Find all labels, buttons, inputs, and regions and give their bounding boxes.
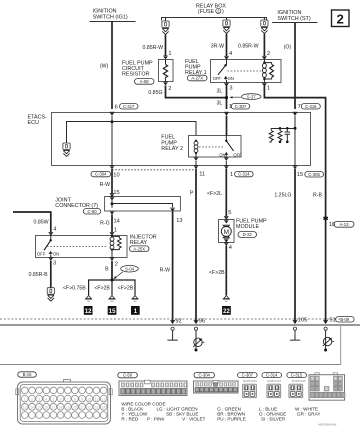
connector B-15 pins xyxy=(21,387,107,418)
pin 105 xyxy=(293,317,308,324)
connector B-15 face xyxy=(16,380,112,424)
svg-text:22: 22 xyxy=(87,406,91,410)
pin 1 C-314 ECU exit xyxy=(224,166,253,178)
svg-text:A-58: A-58 xyxy=(140,79,150,84)
mechanical link injector relay xyxy=(47,245,107,247)
label INJECTOR RELAY xyxy=(130,234,157,251)
svg-text:C-305: C-305 xyxy=(308,172,320,177)
ground terminal 105 xyxy=(290,327,300,340)
svg-text:21: 21 xyxy=(80,406,84,410)
switch relay2 contact arm xyxy=(219,136,242,158)
svg-text:B: B xyxy=(105,267,109,273)
svg-text:R-B: R-B xyxy=(313,192,322,198)
svg-text:9: 9 xyxy=(81,397,83,401)
section separator line xyxy=(0,364,341,366)
svg-text:C-315: C-315 xyxy=(291,373,303,378)
pin 51 with B-09 xyxy=(323,317,354,324)
svg-text:8: 8 xyxy=(74,397,76,401)
svg-text:2: 2 xyxy=(168,86,171,92)
svg-text:2: 2 xyxy=(31,397,33,401)
feed from C-307 to relay2 switch xyxy=(226,116,228,136)
svg-text:1: 1 xyxy=(267,85,270,91)
svg-text:12: 12 xyxy=(102,397,106,401)
svg-text:C-307: C-307 xyxy=(235,104,247,109)
svg-text:<F>2B: <F>2B xyxy=(209,270,225,276)
connector C-307 face xyxy=(243,384,257,398)
svg-text:5: 5 xyxy=(228,210,231,216)
svg-text:C-314: C-314 xyxy=(266,373,278,378)
fuse F2 (to relay1 contact) xyxy=(223,17,230,56)
svg-text:15: 15 xyxy=(297,172,303,178)
svg-text:2: 2 xyxy=(337,11,344,26)
svg-text:ON: ON xyxy=(53,251,59,256)
wire relay1 coil return R-B to ground 51 xyxy=(264,86,325,323)
svg-text:4: 4 xyxy=(45,397,47,401)
svg-text:19: 19 xyxy=(66,406,70,410)
label C-304 xyxy=(194,372,215,377)
svg-text:A-27X: A-27X xyxy=(191,76,203,81)
svg-text:15: 15 xyxy=(37,406,41,410)
svg-text:3: 3 xyxy=(53,261,56,267)
svg-text:13: 13 xyxy=(176,218,182,224)
wire ECU pin10 R-W to joint connector xyxy=(100,169,120,196)
wire ECU pin15 1.25LG to ground 105 xyxy=(274,169,295,323)
svg-text:S-37: S-37 xyxy=(247,94,257,99)
wire internal branch xyxy=(67,122,197,144)
svg-text:RELAY 2: RELAY 2 xyxy=(161,146,183,152)
capacitor filter xyxy=(285,127,291,143)
ground split bar xyxy=(89,278,135,295)
svg-text:RESISTOR: RESISTOR xyxy=(122,72,150,78)
label JOINT CONNECTOR (7) xyxy=(55,198,101,215)
svg-text:10: 10 xyxy=(113,173,119,179)
svg-text:C-314: C-314 xyxy=(238,172,250,177)
pin 13 joint connector to ground xyxy=(160,211,183,322)
pin 11 ECU exit xyxy=(194,166,205,178)
wire 3L relay1 out to junction and ECU xyxy=(217,86,229,109)
inline connector A-13 pin 18 xyxy=(323,217,354,228)
wire relay box bracket xyxy=(162,18,267,21)
wire IG1 inside ECU xyxy=(111,116,114,166)
svg-text:51: 51 xyxy=(329,317,335,323)
svg-text:<F>2L: <F>2L xyxy=(207,191,222,197)
ground 1 xyxy=(131,296,140,316)
pin 7 C-315 ECU entry xyxy=(293,104,321,116)
label C-315 xyxy=(287,373,307,383)
svg-text:92: 92 xyxy=(175,318,181,324)
svg-text:A-25X: A-25X xyxy=(133,246,145,251)
svg-text:7: 7 xyxy=(298,104,301,110)
svg-text:<F>0.75B: <F>0.75B xyxy=(63,285,86,291)
pin 4 relay1 xyxy=(224,51,232,60)
svg-text:C-50: C-50 xyxy=(123,373,133,378)
svg-text:(FUSE: (FUSE xyxy=(198,9,215,15)
svg-text:10: 10 xyxy=(87,397,91,401)
pin 6 C-317 ECU entry xyxy=(110,104,138,116)
wire ST inside ECU to filter xyxy=(294,116,297,166)
svg-text:MU801690: MU801690 xyxy=(292,379,306,383)
bolt ground 96 xyxy=(193,327,204,351)
label C-50 xyxy=(118,372,138,377)
svg-text:6: 6 xyxy=(115,104,118,110)
svg-text:2: 2 xyxy=(115,262,118,268)
svg-text:OFF: OFF xyxy=(213,76,222,81)
svg-text:<F>2B: <F>2B xyxy=(118,285,134,291)
coil relay2 xyxy=(194,140,198,158)
svg-text:15: 15 xyxy=(113,190,119,196)
switch relay1 contact arm xyxy=(213,60,234,84)
svg-text:(W): (W) xyxy=(100,64,109,70)
svg-text:HBG05M04AB: HBG05M04AB xyxy=(318,423,336,427)
pin 10 C-304 ECU exit xyxy=(91,166,120,179)
connector link dashed C-304 xyxy=(112,169,196,171)
svg-text:18: 18 xyxy=(59,406,63,410)
svg-text:C-307: C-307 xyxy=(242,373,254,378)
svg-text:3: 3 xyxy=(229,86,232,92)
frame corner right xyxy=(340,326,342,365)
junction S-37 xyxy=(229,94,261,100)
ground 12 xyxy=(84,296,93,316)
connector C-50 face xyxy=(119,380,187,395)
relay INJECTOR RELAY box xyxy=(36,236,128,258)
svg-text:1.25LG: 1.25LG xyxy=(274,193,291,199)
svg-text:105: 105 xyxy=(298,317,308,323)
svg-text:23: 23 xyxy=(95,406,99,410)
pin 96 xyxy=(194,318,206,324)
svg-text:OFF: OFF xyxy=(233,153,242,158)
svg-text:GR : GRAY: GR : GRAY xyxy=(297,412,320,417)
pin 1 relay2 contact out xyxy=(224,157,229,165)
pin 2 relay1 xyxy=(262,51,270,60)
relay FUEL PUMP RELAY 2 box xyxy=(189,136,242,158)
svg-text:P: P xyxy=(190,190,194,196)
svg-text:ON: ON xyxy=(219,153,225,158)
svg-text:B-09: B-09 xyxy=(340,317,350,322)
svg-text:MODULE: MODULE xyxy=(236,224,259,230)
pin 2 injector relay out xyxy=(105,258,118,281)
node page reference 2 xyxy=(332,10,350,27)
svg-text:0.85R-W: 0.85R-W xyxy=(238,43,259,49)
svg-text:P : PINK: P : PINK xyxy=(147,417,165,422)
wire ST feed down to ECU pin 7 xyxy=(294,23,296,109)
svg-text:ECU: ECU xyxy=(28,120,39,126)
mechanical link relay2 xyxy=(199,146,225,148)
pin 15 C-305 ECU exit xyxy=(293,166,324,179)
svg-text:4: 4 xyxy=(229,245,232,251)
svg-text:3: 3 xyxy=(38,397,40,401)
switch injector relay contact arm xyxy=(37,235,59,257)
label FUEL PUMP RELAY 2 xyxy=(161,135,183,152)
svg-text:MU801323: MU801323 xyxy=(267,379,281,383)
junction S-04 xyxy=(113,265,138,279)
motor FUEL PUMP MODULE xyxy=(219,216,235,242)
svg-text:0.85W: 0.85W xyxy=(34,219,49,225)
svg-text:ON: ON xyxy=(228,76,234,81)
wire C-314 to module F 2L xyxy=(207,169,231,217)
coil relay1 with parallel resistor xyxy=(262,60,273,84)
svg-text:PU : PURPLE: PU : PURPLE xyxy=(217,417,246,422)
svg-text:S-04: S-04 xyxy=(125,267,135,272)
svg-text:R-W: R-W xyxy=(160,267,170,273)
svg-text:): ) xyxy=(222,9,224,15)
coil injector relay with parallel resistor xyxy=(110,235,121,257)
resistor filter 2 xyxy=(278,127,282,143)
svg-text:20: 20 xyxy=(73,406,77,410)
internal filter branch xyxy=(271,129,295,131)
svg-text:C-315: C-315 xyxy=(305,104,317,109)
svg-text:(O): (O) xyxy=(284,45,292,51)
pin 1 relay1 xyxy=(262,83,270,91)
svg-text:M: M xyxy=(224,229,229,236)
svg-text:22: 22 xyxy=(223,309,230,315)
svg-text:0.85R-W: 0.85R-W xyxy=(143,45,164,51)
wire ECU pin11 P to ground 96 xyxy=(190,169,196,323)
svg-text:<F>2B: <F>2B xyxy=(94,285,110,291)
svg-text:16: 16 xyxy=(45,406,49,410)
pin 14 joint connector out xyxy=(100,211,120,233)
label B-15 xyxy=(18,372,37,377)
svg-text:5: 5 xyxy=(53,397,55,401)
node IGNITION SWITCH (ST) label xyxy=(272,10,318,22)
svg-text:13: 13 xyxy=(23,406,27,410)
svg-text:D-22: D-22 xyxy=(243,232,253,237)
connector C-315 face xyxy=(289,384,303,398)
connector C-304 face xyxy=(194,380,239,393)
pin 92 xyxy=(170,318,181,324)
off-page connector below pin 3 xyxy=(47,288,54,301)
joint connector C-50 box xyxy=(105,194,181,212)
ground 22 xyxy=(222,296,231,316)
node IGNITION SWITCH (IG1) label xyxy=(90,9,136,22)
svg-text:15: 15 xyxy=(109,309,116,315)
svg-text:SWITCH (ST): SWITCH (ST) xyxy=(277,16,310,22)
bolt ground 51 xyxy=(323,327,334,351)
svg-text:V : VIOLET: V : VIOLET xyxy=(182,417,205,422)
svg-text:11: 11 xyxy=(199,172,205,178)
svg-text:R-G: R-G xyxy=(100,221,110,227)
pin 11 relay2 coil out xyxy=(194,157,199,165)
svg-text:4: 4 xyxy=(229,51,232,57)
svg-text:SI : SILVER: SI : SILVER xyxy=(261,417,286,422)
svg-text:17: 17 xyxy=(52,406,56,410)
internal off-page symbol xyxy=(63,143,70,156)
label C-314 xyxy=(262,373,282,383)
label ETACS-ECU xyxy=(28,115,48,127)
fuse F1 (to resistor) xyxy=(162,17,169,56)
wire resistor output to junction xyxy=(166,85,227,97)
svg-text:6: 6 xyxy=(60,397,62,401)
svg-text:OFF: OFF xyxy=(37,251,46,256)
pin 3 relay1 xyxy=(224,83,232,91)
pin 1 C-307 ECU entry xyxy=(224,104,250,116)
svg-text:7: 7 xyxy=(67,397,69,401)
pin 3 injector relay out xyxy=(29,258,57,288)
svg-text:RELAY: RELAY xyxy=(130,240,148,246)
boundary dashed line xyxy=(0,318,341,320)
svg-text:C-304: C-304 xyxy=(198,373,210,378)
svg-text:3R-W: 3R-W xyxy=(211,43,224,49)
box ETACS-ECU xyxy=(52,113,311,166)
svg-text:14: 14 xyxy=(30,406,34,410)
svg-text:24: 24 xyxy=(102,406,106,410)
svg-text:R-W: R-W xyxy=(100,182,110,188)
relay FUEL PUMP RELAY 1 box xyxy=(211,60,282,83)
svg-text:MU801325: MU801325 xyxy=(243,379,257,383)
pin 4 module out xyxy=(209,243,232,296)
ground terminal 92 xyxy=(167,327,177,340)
svg-text:3L: 3L xyxy=(217,101,223,107)
svg-text:96: 96 xyxy=(199,318,205,324)
mechanical link relay1 xyxy=(228,70,262,72)
svg-text:R : RED: R : RED xyxy=(121,417,139,422)
svg-text:1: 1 xyxy=(24,397,26,401)
svg-text:B-15: B-15 xyxy=(23,372,33,377)
svg-text:2: 2 xyxy=(267,51,270,57)
label FUEL PUMP CIRCUIT RESISTOR xyxy=(122,60,154,84)
svg-text:4: 4 xyxy=(53,226,56,232)
resistor R1 FUEL PUMP CIRCUIT RESISTOR xyxy=(159,51,174,92)
svg-text:0.85G: 0.85G xyxy=(148,90,162,96)
svg-text:C-50: C-50 xyxy=(87,209,97,214)
resistor filter 1 xyxy=(269,131,273,142)
svg-text:C-304: C-304 xyxy=(95,172,107,177)
wire IG1 feed down to ECU pin 6 xyxy=(111,21,113,109)
wire color code xyxy=(121,402,320,422)
ground bus bar xyxy=(0,324,360,326)
svg-text:A-13: A-13 xyxy=(340,222,350,227)
svg-text:12: 12 xyxy=(85,309,92,315)
pin 4 injector relay entry xyxy=(49,232,54,235)
fuse F3 (to relay1 coil) xyxy=(261,17,268,56)
svg-text:11: 11 xyxy=(95,397,99,401)
svg-text:0.85R-B: 0.85R-B xyxy=(29,272,49,278)
connector C-317 face large xyxy=(309,373,345,400)
connector C-314 face xyxy=(267,384,281,398)
svg-text:C-317: C-317 xyxy=(123,104,135,109)
pin 1 injector relay entry xyxy=(110,232,115,235)
label FUEL PUMP RELAY 1 xyxy=(185,59,207,81)
svg-text:14: 14 xyxy=(114,218,120,224)
wire feed 0.85W from left xyxy=(13,212,56,232)
label FUEL PUMP MODULE xyxy=(236,218,267,237)
svg-text:1: 1 xyxy=(230,172,233,178)
ground 15 xyxy=(108,296,117,316)
svg-text:3L: 3L xyxy=(217,89,223,95)
label C-307 xyxy=(238,373,258,383)
svg-text:SWITCH (IG1): SWITCH (IG1) xyxy=(93,15,128,21)
svg-text:1: 1 xyxy=(168,51,171,57)
node RELAY BOX (FUSE) label xyxy=(196,3,226,15)
